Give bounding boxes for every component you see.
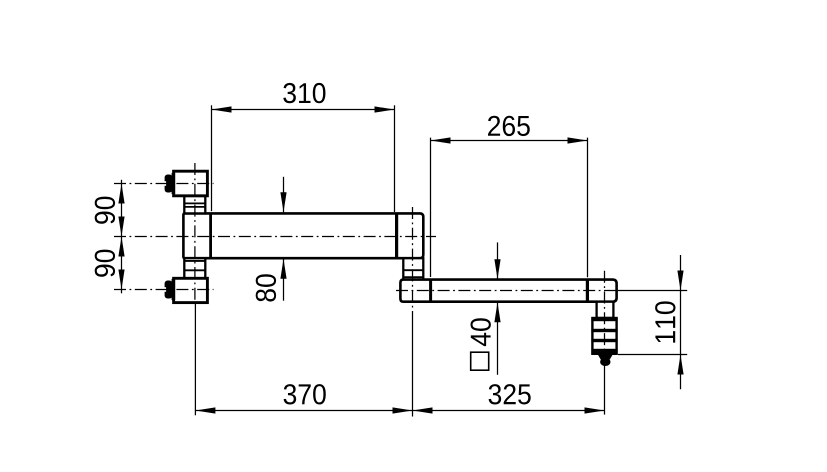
dimension 80 text (256, 274, 276, 301)
top neck (184, 196, 205, 213)
dimension 40 lower line (497, 302, 499, 375)
dimension 110 bottom arrow (677, 355, 683, 375)
arm 2 end of bar edge (586, 280, 589, 302)
bottom bolt washer (172, 279, 176, 300)
dimension 110 top arrow (677, 271, 683, 291)
bottom bolt head (165, 281, 173, 299)
dimension 40 text (471, 318, 491, 346)
dimension 80 upper line (283, 177, 285, 213)
centerline left pivot axis (194, 163, 196, 304)
dimension 90/90 line (121, 180, 123, 293)
bottom bolt block (174, 278, 208, 302)
dimension 370/325 line (195, 410, 604, 412)
dimension 310 extension line right (394, 105, 396, 212)
extension line end pin (325 dim) (604, 364, 606, 415)
bottom bolt socket notch (164, 287, 166, 292)
dimension 310 text (283, 83, 325, 103)
extension line left pivot axis (370 dim) (194, 304, 196, 415)
arm 1 body with pivot block and end block (183, 213, 423, 258)
dimension 40 upper arrow (494, 259, 500, 279)
end pin stack band 2 (591, 329, 617, 332)
dimension 310 arrow left (212, 106, 232, 112)
end pin stack band 1 (591, 318, 617, 321)
dimension 40 upper line (497, 242, 499, 279)
end pin stack outline (592, 318, 616, 354)
dimension 110 line (680, 255, 682, 389)
dimension 265 text (488, 116, 530, 136)
dimension 265 arrow left (431, 137, 451, 143)
dimension 265 extension line right (587, 138, 589, 278)
extension line arm 2 axis (110 dim top) (617, 290, 687, 292)
dimension 310 line (212, 109, 395, 111)
dimension 40 square symbol (471, 352, 489, 370)
dimension 370 arrow right (393, 407, 413, 413)
dimension 310 extension line left (211, 105, 213, 211)
extension line pin bottom (110 dim bottom) (618, 354, 687, 356)
middle joint neck (403, 258, 423, 279)
dimension 90 top text (95, 197, 115, 224)
middle joint neck ridge lines (403, 270, 423, 277)
extension line middle joint (370/325 dim) (412, 311, 414, 417)
arm 1 end block left edge (395, 213, 398, 258)
dimension 40 lower arrow (494, 302, 500, 322)
dimension 265 extension line left (430, 138, 432, 277)
top neck ridge lines (184, 203, 205, 207)
dimension 265 arrow right (568, 137, 588, 143)
dimension 90 top arrow down (118, 217, 124, 237)
dimension 90 bottom arrow up (118, 237, 124, 257)
bottom neck (184, 258, 205, 278)
centerline bottom bolt (114, 289, 214, 291)
centerline middle joint axis (412, 207, 414, 311)
arm 1 pivot block right edge (209, 213, 212, 258)
end pin tip (598, 354, 614, 360)
top bolt head (165, 175, 173, 193)
top bolt washer (172, 173, 176, 194)
dimension 325 text (489, 384, 531, 404)
end pin stack band 4 (591, 349, 617, 354)
arm 2 body with joint block and end block (400, 280, 616, 302)
end pin neck (597, 302, 614, 318)
dimension 80 lower line (283, 259, 285, 301)
dimension 370 text (284, 384, 326, 404)
dimension 265 line (431, 140, 588, 142)
end pin stack band 3 (591, 339, 617, 342)
dimension 80 lower arrow (280, 259, 286, 279)
centerline top bolt (114, 183, 214, 185)
top bolt block (174, 171, 208, 196)
dimension 90 bottom arrow down (118, 270, 124, 290)
dimension 110 text (655, 301, 675, 342)
end pin ball (600, 358, 610, 366)
top bolt socket notch (164, 181, 166, 186)
dimension 325 arrow right (585, 407, 605, 413)
arm 2 joint block right edge (429, 280, 432, 302)
dimension 370 arrow left (195, 407, 215, 413)
dimension 310 arrow right (375, 106, 395, 112)
bottom neck ridge lines (184, 261, 205, 270)
dimension 325 arrow left (413, 407, 433, 413)
dimension 80 upper arrow (280, 192, 286, 212)
centerline arm 1 axis (114, 236, 436, 238)
centerline arm 2 axis (396, 290, 617, 292)
centerline end pin axis (604, 271, 606, 364)
dimension 90 bottom text (95, 250, 115, 277)
dimension 90 top arrow up (118, 184, 124, 204)
